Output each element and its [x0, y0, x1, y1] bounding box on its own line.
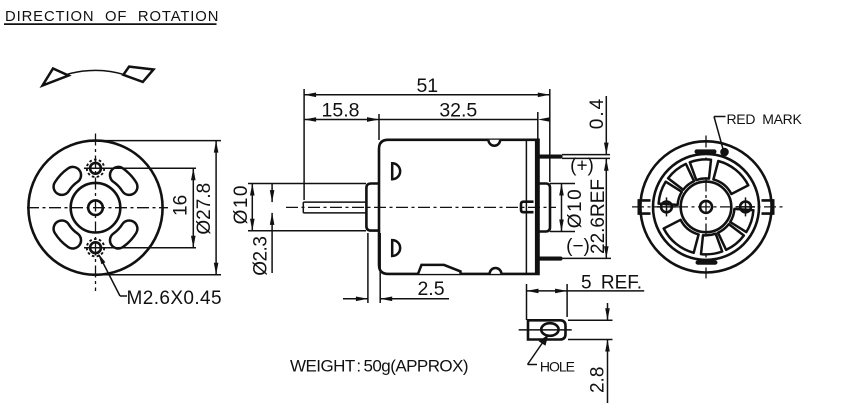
front view shaft hole: [88, 200, 103, 215]
svg-text:RED MARK: RED MARK: [727, 111, 803, 127]
svg-text:Ø27.8: Ø27.8: [194, 183, 215, 235]
rear vent wedge 7: [718, 224, 744, 250]
svg-text:HOLE: HOLE: [540, 358, 575, 374]
dim 5 REF line: [527, 290, 645, 292]
front view horizontal centerline: [27, 207, 168, 209]
dim 2.5 line left: [343, 298, 368, 300]
red mark leader: [714, 116, 726, 118]
front view outer circle: [28, 141, 162, 275]
side view D vent top: [392, 163, 400, 179]
dim right diameter 10 ext lines: [550, 183, 575, 185]
rear bottom vent bar: [696, 260, 718, 264]
dim diameter 2.3 arrows: [271, 184, 273, 202]
screw hole top M2.6: [90, 163, 101, 174]
terminal negative: [537, 257, 563, 261]
rear view inner circle: [653, 154, 759, 260]
svg-text:32.5: 32.5: [439, 100, 477, 122]
rear right tab: [762, 200, 774, 213]
dim 16 line: [192, 168, 194, 247]
rotation arrow arc: [43, 70, 126, 85]
svg-text:51: 51: [416, 75, 438, 97]
side view centerline: [286, 206, 556, 208]
rear view shaft center hole: [700, 201, 712, 213]
rear vent wedge 3: [668, 164, 694, 190]
front view vent slot lower-left: [54, 220, 81, 248]
side view shaft: [303, 201, 366, 203]
dim right diameter 10 line: [561, 184, 563, 232]
rear view vertical centerline: [705, 136, 707, 279]
dim diameter 27.8 line: [215, 141, 217, 275]
dim 22.6REF line: [605, 159, 607, 258]
terminal positive: [537, 155, 563, 159]
svg-text:15.8: 15.8: [322, 100, 360, 122]
detail tab centerline: [519, 329, 572, 331]
side view D vent bottom: [392, 240, 400, 256]
svg-text:5 REF.: 5 REF.: [581, 273, 642, 294]
hole leader: [528, 337, 547, 365]
svg-text:WEIGHT:50g(APPROX): WEIGHT:50g(APPROX): [290, 357, 468, 376]
svg-text:16: 16: [171, 195, 192, 216]
dim diameter 27.8 extension lines: [92, 140, 221, 142]
svg-text:M2.6X0.45: M2.6X0.45: [127, 288, 223, 309]
svg-text:0.4: 0.4: [587, 97, 608, 129]
dim 2.5 ext lines: [367, 233, 369, 303]
rear vent wedge 6: [701, 234, 722, 255]
svg-text:Ø10: Ø10: [231, 184, 252, 224]
rear screw boss right: [740, 202, 751, 213]
dim 15.8 line: [304, 119, 379, 121]
dim 16 extension lines: [108, 167, 196, 169]
leader M2.6X0.45: [99, 255, 120, 296]
svg-text:Ø10: Ø10: [565, 188, 586, 228]
side view seam line: [525, 141, 527, 273]
rotation arrowhead: [43, 69, 69, 86]
rotation flag: [123, 67, 153, 82]
rear vent wedge 2: [690, 159, 711, 180]
side view bottom tab: [418, 265, 461, 274]
rear screw boss left: [661, 202, 672, 213]
rear vent wedge 4: [659, 182, 682, 205]
side view rear bearing bump: [521, 202, 534, 213]
rear left tab: [639, 200, 651, 213]
dim 2.8 arrows: [607, 303, 609, 320]
front view vent slot lower-right: [110, 220, 137, 248]
rear vent wedge 1: [713, 161, 748, 194]
svg-text:2.8: 2.8: [588, 367, 609, 393]
side view endcap boss: [539, 184, 550, 232]
side view rear face thick line: [535, 140, 539, 274]
dim 15.8 ext: [378, 114, 380, 140]
rear view horizontal centerline: [632, 206, 784, 208]
dim 0.4 line: [605, 96, 607, 155]
rear vent wedge 8: [730, 209, 753, 232]
dim 32.5 ext: [537, 112, 539, 139]
svg-text:(+): (+): [570, 156, 594, 177]
side view bushing: [366, 184, 379, 231]
svg-text:2.5: 2.5: [417, 278, 444, 300]
dim left diameter 10 line: [251, 184, 253, 231]
side view top notch: [488, 140, 500, 146]
side view motor can body: [379, 140, 539, 274]
dim 51 extension lines: [303, 89, 305, 200]
side view bottom notch: [490, 268, 502, 274]
detail hole: [541, 323, 558, 336]
svg-text:22.6REF: 22.6REF: [588, 179, 609, 254]
dim 5 REF ext lines: [526, 284, 528, 320]
dim 2.8 ext lines: [568, 319, 613, 321]
red mark dot: [720, 148, 729, 157]
detail terminal tab: [528, 320, 566, 339]
screw hole bottom M2.6: [90, 242, 101, 253]
dim left diameter 10 ext lines: [248, 183, 366, 185]
dim 32.5 line: [379, 119, 538, 121]
rear vent wedge 5: [664, 220, 699, 253]
svg-text:Ø2.3: Ø2.3: [251, 237, 272, 276]
rear top vent bar: [695, 149, 717, 153]
front view vent slot upper-right: [110, 167, 137, 195]
rear view rotor circle: [681, 182, 732, 233]
svg-text:(−): (−): [566, 236, 590, 257]
dim 2.5 line right: [380, 298, 449, 300]
front view vertical centerline: [95, 134, 97, 292]
dim 51 line: [304, 94, 550, 96]
svg-text:DIRECTION OF ROTATION: DIRECTION OF ROTATION: [5, 9, 219, 25]
front view vent slot upper-left: [54, 167, 81, 195]
front view boss circle: [71, 183, 121, 233]
rear view outer circle: [640, 141, 771, 272]
